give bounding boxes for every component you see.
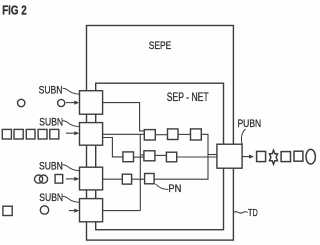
output symbol square 3 [294, 151, 303, 161]
wire box2 to node A [103, 133, 145, 135]
output symbol square 2 [281, 152, 290, 162]
leader squiggle SUBN 3 [63, 165, 80, 171]
leader squiggle SUBN 2 [63, 121, 80, 127]
node G (PN) [122, 174, 131, 184]
input node SUBN box 4 [80, 199, 103, 222]
node A [144, 130, 155, 140]
input symbols row 2: five squares [2, 129, 59, 139]
input arrow 2 [66, 132, 75, 134]
inner box SEP-NET [96, 83, 224, 230]
input symbols row 1: circle, circle [18, 99, 65, 106]
input arrow 4 [69, 210, 75, 212]
wire C and H to PUBN [154, 134, 208, 179]
wire D to E [134, 156, 144, 158]
svg-text:TD: TD [248, 207, 258, 219]
svg-text:SUBN: SUBN [39, 117, 63, 129]
svg-text:PN: PN [168, 183, 181, 195]
wire box2 down to node D [103, 138, 123, 157]
wire stub into PUBN [208, 154, 217, 156]
node F [166, 152, 176, 162]
wire A to B [155, 134, 167, 136]
node B [168, 129, 179, 140]
input node SUBN box 1 [80, 91, 103, 115]
input symbols row 4: square, circle [3, 206, 49, 216]
wire box4 to bus [103, 210, 141, 212]
input symbols row 3: two overlapping circles, square [35, 175, 63, 184]
svg-text:SUBN: SUBN [39, 192, 63, 204]
output node PUBN box [217, 144, 242, 168]
output symbol oval [306, 149, 315, 164]
output symbol square 1 [257, 151, 266, 161]
wire B to C [178, 133, 191, 135]
outer box SEPE (TD) [87, 26, 234, 241]
svg-text:SEP - NET: SEP - NET [167, 92, 209, 104]
input arrow 3 [66, 178, 75, 180]
wire stub into node E [140, 154, 144, 156]
leader squiggle SUBN 4 [63, 196, 80, 202]
wire vertical bus [139, 134, 141, 210]
svg-text:SEPE: SEPE [149, 40, 172, 52]
leader squiggle SUBN 1 [63, 88, 80, 94]
node E [144, 151, 155, 161]
input arrow 1 [66, 102, 75, 104]
svg-text:PUBN: PUBN [238, 118, 262, 130]
wire E to F [155, 154, 167, 156]
svg-text:SUBN: SUBN [39, 161, 63, 173]
svg-text:FIG 2: FIG 2 [2, 4, 26, 17]
input node SUBN box 3 [80, 167, 103, 190]
svg-text:SUBN: SUBN [39, 84, 63, 96]
node D [123, 152, 134, 162]
node C [191, 129, 202, 140]
leader squiggle TD [234, 212, 248, 213]
output symbol star [270, 150, 278, 164]
wire box1 to node A [103, 103, 145, 131]
input node SUBN box 2 [80, 123, 103, 146]
wire F to PUBN [177, 156, 217, 158]
leader squiggle PUBN [241, 129, 245, 144]
wire box3 to node G [103, 178, 123, 180]
node H [145, 174, 155, 184]
wire G to H [132, 178, 145, 180]
output arrow from PUBN [242, 156, 249, 158]
leader squiggle PN [156, 184, 169, 190]
